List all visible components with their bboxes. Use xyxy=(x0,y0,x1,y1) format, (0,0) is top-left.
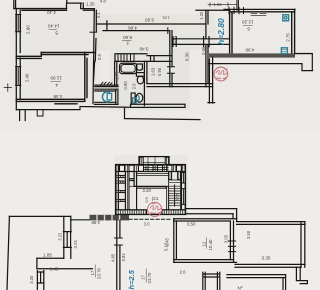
wall corridor-storage y85 xyxy=(95,85,118,87)
svg-text:4.48: 4.48 xyxy=(53,94,62,99)
svg-text:1.63: 1.63 xyxy=(151,67,156,76)
wire corridor top line 6.93 xyxy=(96,23,205,25)
room12 top wall xyxy=(174,219,237,221)
svg-text:2.6: 2.6 xyxy=(180,270,187,275)
svg-text:3.35: 3.35 xyxy=(262,255,271,260)
stair top bump xyxy=(139,157,169,165)
svg-text:8.60: 8.60 xyxy=(123,35,132,40)
ticks on passage xyxy=(173,37,209,47)
svg-text:4.10: 4.10 xyxy=(47,10,56,15)
wire top vertical at 237 xyxy=(237,0,239,10)
svg-text:Nº: Nº xyxy=(238,286,243,290)
bathroom top band xyxy=(115,54,147,62)
right room bottom wall xyxy=(235,264,305,267)
teal tinge toilet2 xyxy=(133,98,137,103)
wall step room4 top xyxy=(16,53,41,59)
svg-text:1.45: 1.45 xyxy=(50,266,59,271)
tick on corridor line xyxy=(106,21,108,30)
svg-text:6.93: 6.93 xyxy=(145,17,154,22)
svg-text:0.9: 0.9 xyxy=(144,196,149,202)
svg-text:1.85: 1.85 xyxy=(43,253,52,258)
wire left outer wall top corner xyxy=(14,0,16,9)
wire lower outer line right xyxy=(209,54,313,71)
wall top notch xyxy=(67,0,95,10)
wall room6 top xyxy=(224,9,295,11)
wire small notch xyxy=(37,110,43,116)
wall top line left xyxy=(9,216,89,219)
bottom band right xyxy=(227,275,286,290)
wall left double room5+room4 xyxy=(16,9,20,110)
svg-text:23.70: 23.70 xyxy=(96,267,101,279)
bottom band bathroom xyxy=(131,104,186,107)
room 21 right wall hatch xyxy=(166,186,168,209)
room12 bottom wall xyxy=(174,260,237,263)
passage double lines to room6 xyxy=(172,39,230,45)
svg-text:10.40: 10.40 xyxy=(208,239,213,251)
svg-text:|21: |21 xyxy=(152,196,159,202)
svg-text:2.46: 2.46 xyxy=(25,73,30,82)
svg-text:4.8: 4.8 xyxy=(100,0,106,3)
svg-text:12: 12 xyxy=(202,241,207,246)
wall entry top xyxy=(196,9,230,11)
wall left outer slanted xyxy=(7,216,9,290)
svg-text:3.0: 3.0 xyxy=(144,222,150,227)
svg-text:12.90: 12.90 xyxy=(50,76,62,81)
svg-text:4.90: 4.90 xyxy=(245,47,254,52)
svg-text:17: 17 xyxy=(90,270,95,275)
stair outer box xyxy=(116,165,186,215)
right room top wall xyxy=(237,222,305,225)
storage room walls xyxy=(94,89,118,104)
door ticks wall170 xyxy=(167,67,174,73)
svg-text:3.50: 3.50 xyxy=(187,221,196,226)
svg-text:3.24: 3.24 xyxy=(73,240,78,249)
wall right boundary below room6 xyxy=(208,57,215,103)
wall bathroom mid vertical xyxy=(144,61,147,105)
window W3 xyxy=(63,232,71,248)
room12 left wall xyxy=(174,219,177,263)
blue square mark 2 room6 xyxy=(281,48,287,54)
svg-text:4: 4 xyxy=(55,81,58,87)
wall room6 left xyxy=(230,9,232,55)
svg-text:1.55: 1.55 xyxy=(214,2,223,7)
wall top of room5 xyxy=(15,9,67,11)
svg-text:6: 6 xyxy=(247,25,250,31)
wall x206 entry xyxy=(206,10,208,87)
window W1 room5 left xyxy=(16,15,21,32)
toilet T1 xyxy=(136,73,144,77)
svg-text:0.90: 0.90 xyxy=(123,81,128,90)
svg-text:6.30: 6.30 xyxy=(184,52,189,61)
wall connect down xyxy=(233,209,237,221)
room 21 interior white xyxy=(137,189,166,210)
wall thick band stairwell SW xyxy=(90,215,130,221)
svg-text:4.1: 4.1 xyxy=(96,12,101,18)
svg-text:2.88: 2.88 xyxy=(91,220,100,225)
ticks room12 right wall xyxy=(228,241,235,252)
svg-text:1.20: 1.20 xyxy=(199,11,204,20)
wall right of room4 xyxy=(85,53,87,101)
svg-text:2.75: 2.75 xyxy=(285,33,290,42)
svg-text:1.75: 1.75 xyxy=(115,71,120,80)
wall room6 right xyxy=(292,9,295,53)
svg-text:23.70: 23.70 xyxy=(147,272,152,284)
dashes door room6 top xyxy=(251,13,266,15)
svg-text:1.61: 1.61 xyxy=(161,16,170,21)
wall double y84-87 xyxy=(147,84,213,87)
dashed line 3.0 xyxy=(129,218,172,220)
wall bottom of room5 xyxy=(41,53,94,55)
dim line 1.55 xyxy=(208,3,237,7)
stair right outer wall windows xyxy=(181,165,185,215)
wall big left vertical with window xyxy=(64,216,71,258)
svg-text:4.85: 4.85 xyxy=(111,253,116,262)
wall right of room5 xyxy=(93,9,96,104)
ticks on room6 top wall xyxy=(229,7,244,13)
wall bottom of room4 xyxy=(16,99,85,104)
cross mark survey xyxy=(4,84,12,92)
svg-text:3.30: 3.30 xyxy=(29,275,34,284)
svg-text:1.45: 1.45 xyxy=(165,237,170,246)
door ticks central wall xyxy=(114,238,122,245)
svg-text:17: 17 xyxy=(141,275,146,280)
wall window bottom left xyxy=(37,271,43,290)
svg-text:1.35: 1.35 xyxy=(86,1,95,6)
svg-text:0.66: 0.66 xyxy=(201,46,206,55)
wall step 1.45 xyxy=(37,268,93,270)
stair treads upper xyxy=(137,167,169,175)
wall room6 bottom thick xyxy=(209,53,295,57)
stair labels xyxy=(91,188,180,227)
svg-text:3.05: 3.05 xyxy=(223,234,228,243)
toilet T2 xyxy=(131,93,135,103)
window W2 room4 left xyxy=(16,67,21,86)
svg-text:3.60: 3.60 xyxy=(246,230,251,239)
door tick room5 right xyxy=(90,31,97,33)
svg-text:4.86: 4.86 xyxy=(128,26,137,31)
svg-text:0.91: 0.91 xyxy=(172,35,177,44)
stair left cells xyxy=(116,172,118,215)
svg-text:3.22: 3.22 xyxy=(57,232,62,241)
bathtub xyxy=(120,63,137,73)
svg-text:14.40: 14.40 xyxy=(48,24,60,29)
wall central vertical double xyxy=(117,220,120,290)
svg-text:h=2.5: h=2.5 xyxy=(127,269,136,289)
window W4 xyxy=(37,272,43,283)
wire protrusion bottom-left xyxy=(20,110,26,121)
stair top band hatched cells xyxy=(116,165,185,172)
svg-text:3.20: 3.20 xyxy=(142,188,151,193)
wire corridor second line 4.86 xyxy=(103,30,170,32)
bottom stubs left pair xyxy=(203,272,220,290)
teal sink C fixture xyxy=(102,92,109,102)
texts bottom plan xyxy=(29,221,271,290)
svg-text:12.20: 12.20 xyxy=(242,20,254,25)
svg-text:3.40: 3.40 xyxy=(139,47,148,52)
svg-text:0.65: 0.65 xyxy=(174,193,179,202)
svg-text:h=2.80: h=2.80 xyxy=(216,18,226,45)
stair bottom band xyxy=(116,210,147,215)
room 21 walls xyxy=(134,186,167,214)
wall band right of stairwell xyxy=(186,209,237,214)
room12 right wall xyxy=(230,221,233,262)
wall step 1.85 xyxy=(37,257,64,259)
svg-text:0.9: 0.9 xyxy=(97,54,102,60)
band right segment xyxy=(147,56,172,62)
svg-text:3.84: 3.84 xyxy=(121,253,126,262)
tick corridor second xyxy=(167,28,169,34)
svg-text:0.90: 0.90 xyxy=(157,67,162,76)
blue square mark 1 room6 xyxy=(283,15,289,21)
wire outer bottom line left xyxy=(17,107,200,120)
svg-text:5: 5 xyxy=(55,29,58,35)
svg-text:2.6: 2.6 xyxy=(132,83,137,89)
sink xyxy=(137,64,143,70)
wall bathroom left xyxy=(115,61,117,85)
bottom right L bracket xyxy=(296,267,307,283)
wall room3 right double xyxy=(170,31,172,87)
wall step vert xyxy=(36,258,38,268)
hatch ticks bathroom band xyxy=(118,54,134,61)
door swing marks xyxy=(101,82,113,85)
right room right wall xyxy=(301,222,305,268)
stair flight right treads xyxy=(169,172,181,215)
svg-text:2.80: 2.80 xyxy=(25,25,30,34)
